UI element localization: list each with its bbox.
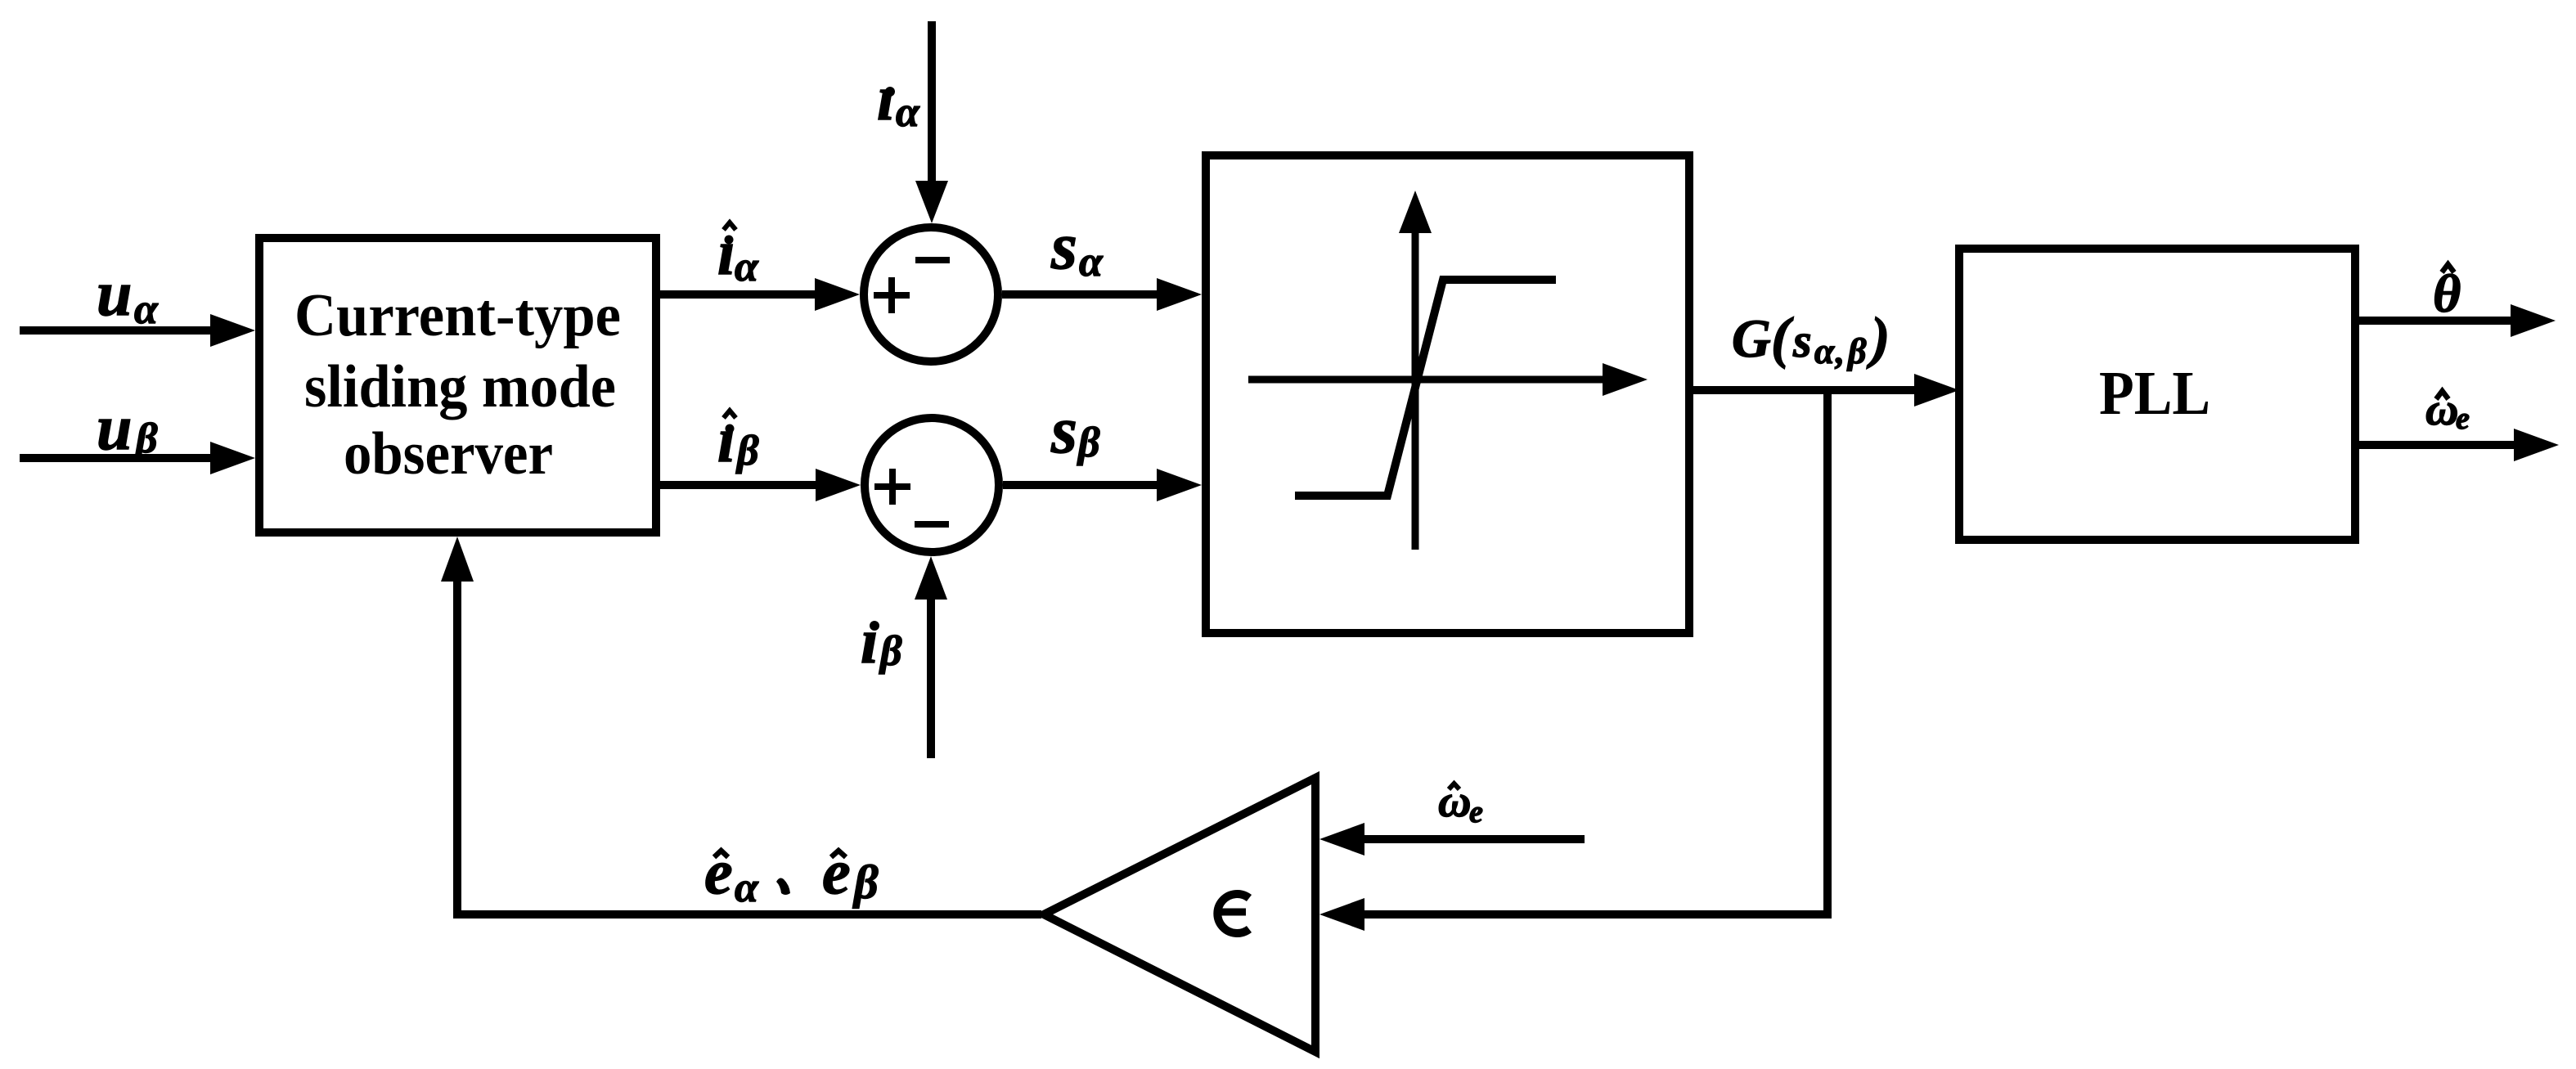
svg-text:u: u	[97, 258, 132, 329]
label i_beta_hat	[717, 404, 759, 475]
label plus on S2	[874, 469, 910, 505]
svg-text:α: α	[134, 286, 159, 333]
svg-text:β: β	[134, 415, 158, 462]
summer S2	[865, 418, 999, 552]
wire: G(s_alpha,beta) output (saturation to PLL)	[1693, 374, 1959, 406]
saturation y-axis	[1399, 191, 1432, 550]
wire: i_alpha_hat (observer to summer S1)	[660, 278, 860, 311]
wire: s_alpha (S1 to saturation block)	[1002, 278, 1202, 311]
label u_alpha	[97, 258, 159, 333]
label minus on S2	[915, 521, 949, 528]
amplifier A1: switching gain epsilon	[1044, 778, 1315, 1052]
svg-text:ı: ı	[877, 62, 895, 133]
label omega_e_hat output	[2425, 384, 2470, 436]
svg-text:sliding mode: sliding mode	[304, 353, 616, 420]
wire: i_beta input (bottom, into S2)	[915, 556, 947, 758]
svg-text:PLL: PLL	[2099, 359, 2210, 428]
wire: omega_e_hat feedback input	[1319, 823, 1585, 856]
wire: e_hat feedback (amplifier to observer)	[441, 537, 1041, 919]
label omega_e_hat feedback	[1438, 776, 1483, 829]
svg-text:β: β	[852, 856, 879, 909]
svg-text:s: s	[1050, 209, 1077, 283]
svg-text:α: α	[1079, 239, 1104, 285]
svg-text:e: e	[822, 836, 851, 907]
svg-text:u: u	[97, 392, 132, 463]
svg-text:β: β	[1077, 420, 1100, 466]
svg-text:α: α	[735, 244, 759, 290]
svg-text:e: e	[2456, 402, 2470, 436]
svg-text:θ: θ	[2433, 264, 2461, 324]
wire: s_beta (S2 to saturation block)	[1003, 469, 1202, 501]
label i_alpha_hat	[717, 217, 759, 290]
wire: u_alpha input	[20, 314, 255, 347]
svg-text:observer: observer	[344, 420, 553, 487]
label u_beta	[97, 392, 158, 463]
block U2: saturation function	[1206, 155, 1689, 633]
label epsilon	[1217, 894, 1249, 933]
svg-text:β: β	[735, 428, 759, 474]
label e_alpha_hat, e_beta_hat	[704, 836, 879, 911]
label s_alpha	[1050, 209, 1104, 285]
svg-text:α: α	[735, 865, 759, 911]
label i_alpha	[877, 62, 920, 136]
svg-text:α: α	[896, 89, 920, 136]
label plus on S1	[874, 277, 910, 313]
block U3: PLL	[1959, 249, 2355, 540]
block U1: Current-type sliding mode observer	[259, 238, 656, 532]
wire: i_beta_hat (observer to summer S2)	[660, 469, 861, 501]
svg-text:e: e	[704, 836, 733, 907]
svg-text:ı: ı	[861, 605, 879, 676]
label i_beta	[861, 605, 902, 676]
svg-text:β: β	[879, 628, 902, 675]
wire: theta_hat output	[2359, 304, 2556, 337]
saturation x-axis	[1248, 363, 1648, 396]
wire: u_beta input	[20, 442, 255, 474]
wire: feedback into amplifier lower input	[1319, 898, 1832, 931]
label theta_hat	[2433, 264, 2461, 324]
svg-text:s: s	[1050, 393, 1077, 467]
saturation curve	[1295, 280, 1556, 496]
label minus on S1	[915, 257, 950, 263]
label s_beta	[1050, 393, 1100, 467]
summer S1	[864, 227, 998, 362]
svg-text:Current-type: Current-type	[294, 282, 621, 349]
wire: omega_e_hat output	[2359, 429, 2559, 461]
wire: feedback drop from G output node	[1823, 390, 1832, 914]
svg-text:e: e	[1469, 795, 1483, 829]
wire: i_alpha input (top, into S1)	[915, 21, 948, 223]
